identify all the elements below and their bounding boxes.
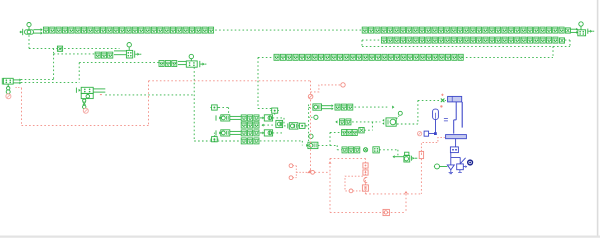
red wire riser x421 xyxy=(420,159,422,194)
IC U2 xyxy=(2,78,21,94)
pull-up RP1 xyxy=(276,120,283,127)
red wire drop x406 xyxy=(405,194,407,213)
wire U7 out xyxy=(273,132,284,134)
pin circle P3 xyxy=(309,134,313,138)
resistor row RN15 xyxy=(342,147,360,153)
resistor row RN10 xyxy=(241,130,259,136)
wire net2 (y46) xyxy=(362,45,570,47)
erc marker red cross xyxy=(441,94,443,96)
buffer U6 xyxy=(260,115,273,121)
connector J2 (chain 2 terminator) xyxy=(578,22,594,36)
red junction Q2 xyxy=(307,169,315,174)
pin circle P4 xyxy=(397,111,403,118)
tube V1 grid pins xyxy=(444,119,448,121)
terminator T1 xyxy=(57,46,62,51)
wire arrow into U9 xyxy=(306,144,308,147)
resistor row RN11 xyxy=(241,138,259,144)
resistor chain RN4 xyxy=(274,54,463,60)
wire row4 out xyxy=(260,141,302,146)
resistor chain RN1 xyxy=(43,27,213,33)
resistor row RN12 xyxy=(335,104,353,110)
red branch pin xyxy=(311,83,346,92)
resistor row RN9 xyxy=(241,122,259,128)
tube V1 anode cap xyxy=(448,96,462,102)
marker red dot xyxy=(440,105,442,107)
heater wires xyxy=(451,153,460,165)
red resistor RR1 xyxy=(363,163,368,168)
wire chain3 left lead xyxy=(362,40,381,46)
resistor group RN6 xyxy=(95,52,113,58)
wire C1 down xyxy=(429,119,437,135)
wire U8 out xyxy=(306,125,309,127)
no-ERC marker M3 xyxy=(418,132,422,136)
buffer U5 xyxy=(216,130,241,136)
wire J1 branch xyxy=(29,35,120,48)
series R1 xyxy=(373,147,379,153)
header P1 xyxy=(270,108,279,115)
pin flag red xyxy=(100,94,102,96)
pin circle P5 xyxy=(364,148,368,152)
red pin circle P6 xyxy=(289,164,296,168)
bus riser x308 xyxy=(309,105,313,142)
red inner loop xyxy=(345,176,363,191)
red pin circle P7 xyxy=(289,176,296,180)
wire chain4 feed down xyxy=(258,57,272,108)
resistor row RN13 xyxy=(340,119,351,125)
wire chain3 right lead xyxy=(565,40,570,46)
red wire net7 xyxy=(365,191,421,194)
ground pin green xyxy=(434,164,447,169)
wire branch lower xyxy=(54,49,95,54)
buffer U7 xyxy=(260,130,273,136)
wire to U2 ports xyxy=(21,54,54,80)
no-ERC marker M4 xyxy=(308,94,313,99)
wire U9 out xyxy=(318,144,330,146)
red wire to tube xyxy=(421,137,444,151)
wire net1 (y30) xyxy=(215,29,362,31)
power pins U3 xyxy=(83,99,86,109)
transistor Q1 xyxy=(404,152,417,162)
no-ERC marker M2 xyxy=(83,108,88,113)
wire chain2 end xyxy=(571,28,578,34)
wire to U8 xyxy=(284,123,288,128)
canvas edge bottom xyxy=(0,236,600,238)
red wire junction row xyxy=(296,171,330,173)
red resistor RR4 xyxy=(419,151,423,158)
driver U9 xyxy=(308,142,318,148)
red wire main riser xyxy=(310,81,312,170)
wire rowA out xyxy=(355,105,395,108)
wire J4 down xyxy=(193,67,195,141)
tube V1 cathode bar xyxy=(446,135,467,139)
wire net4 (y95) xyxy=(105,94,194,96)
IC U3 xyxy=(76,87,105,98)
port arrow PA1 xyxy=(393,155,405,158)
red wire net8 bottom xyxy=(330,211,406,213)
ground symbol GP2 xyxy=(210,133,218,142)
tube V1 base xyxy=(450,147,458,153)
wire RN7 to J4 xyxy=(178,61,186,64)
driver U8 xyxy=(289,123,298,129)
junction X1 xyxy=(441,99,448,103)
ground symbol GP1 xyxy=(210,105,218,110)
red pin riser xyxy=(295,166,297,178)
wire rowD feed xyxy=(330,145,342,149)
resistor chain RN3 xyxy=(381,37,564,43)
red coil LR1 xyxy=(364,177,367,182)
resistor row RN14 xyxy=(342,130,358,136)
red pin circle P8 xyxy=(349,189,365,193)
resistor group RN7 xyxy=(159,61,177,67)
wire rowC xyxy=(330,132,341,145)
indicator LED1 xyxy=(467,159,473,165)
wire rowC out xyxy=(364,122,372,130)
connector J1 (chain 1 feed) xyxy=(20,23,43,36)
red wire net5 top xyxy=(149,80,311,82)
red resistor RR3 xyxy=(362,185,368,191)
red wire net5 left drop xyxy=(148,81,150,126)
red resistor RR2 xyxy=(363,170,368,175)
red wire net5 bottom xyxy=(22,124,149,126)
switch SW1 xyxy=(457,158,468,173)
tube V1 stem xyxy=(455,139,457,147)
canvas edge right xyxy=(597,0,599,236)
connector J3 xyxy=(126,43,141,59)
resistor row RN8 xyxy=(241,115,259,121)
pin circle P2 xyxy=(309,115,318,119)
driver U10 xyxy=(313,104,334,110)
wire to tube grid xyxy=(397,100,440,124)
wire chain4 left lead xyxy=(258,56,274,58)
red wire U2 drop xyxy=(16,88,22,126)
wire rowB out xyxy=(352,121,380,123)
no-ERC marker M1 xyxy=(6,94,11,99)
wire to RN5 row xyxy=(21,63,159,83)
wire rowB stub xyxy=(335,120,337,123)
buffer U4 xyxy=(216,115,241,121)
wire rowD out xyxy=(379,150,398,157)
capacitor C1 pill xyxy=(433,109,439,119)
tube V1 body right xyxy=(461,102,463,128)
wire RN6 to J3 xyxy=(114,51,126,55)
wire U6 out xyxy=(273,118,284,126)
diode D1 xyxy=(447,165,454,174)
terminator T2 xyxy=(359,128,364,133)
ground symbol GP3 xyxy=(298,123,306,128)
red wire net6 xyxy=(330,157,365,159)
wire row4 feed xyxy=(194,140,241,142)
resistor chain RN2 xyxy=(362,27,570,33)
wire GP1 to RN8 xyxy=(219,107,229,114)
tube V1 body inner xyxy=(454,102,457,134)
wire net3 (chain4 to net2) xyxy=(462,46,553,57)
red wire drop x330 xyxy=(329,158,332,212)
red wire comp string xyxy=(364,158,366,194)
red fuse F1 xyxy=(383,209,389,215)
connector J4 xyxy=(186,54,206,67)
wire row2 stub xyxy=(262,124,276,127)
resistor RB1 xyxy=(424,131,429,136)
buffer U11 xyxy=(382,118,396,126)
